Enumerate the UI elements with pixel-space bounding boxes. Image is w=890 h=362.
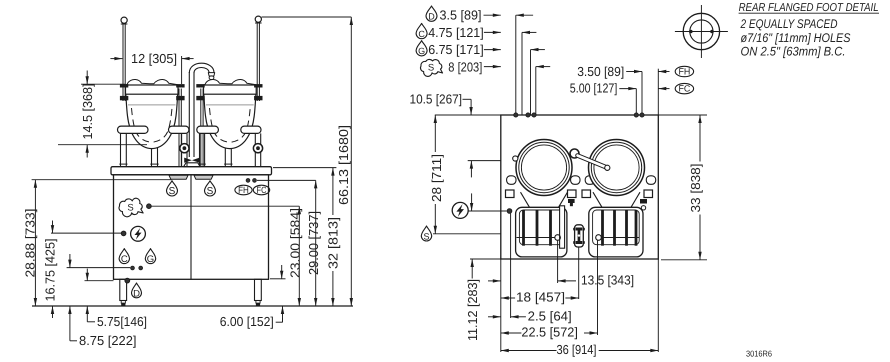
svg-text:28 [711]: 28 [711] bbox=[429, 154, 444, 202]
svg-text:33 [838]: 33 [838] bbox=[688, 164, 703, 213]
dim 13.5 [343] bbox=[488, 273, 634, 288]
plan left drain line and port bbox=[517, 237, 555, 239]
plan right connection lines 3.50 5.00 bbox=[641, 72, 643, 116]
rear foot detail crosshair bbox=[675, 31, 728, 33]
plan right funnel bbox=[593, 192, 602, 207]
svg-text:S: S bbox=[207, 186, 214, 197]
dim row C 4.75 [121] bbox=[416, 23, 536, 40]
right kettle pivot post bbox=[254, 133, 256, 166]
right tilt rod bbox=[256, 23, 258, 101]
right kettle inner support column bbox=[200, 89, 202, 167]
faucet gooseneck bbox=[189, 63, 214, 73]
dim 32 [813] vertical bbox=[273, 168, 340, 306]
left kettle inner support column bbox=[178, 89, 180, 167]
kettle inner level line bbox=[206, 104, 254, 106]
kettle inner bowl hidden line bbox=[210, 108, 251, 142]
icon steam droplet S left bbox=[167, 181, 178, 196]
svg-text:FC: FC bbox=[678, 84, 690, 94]
svg-text:5.00 [127]: 5.00 [127] bbox=[570, 80, 618, 95]
svg-text:29.00 [737]: 29.00 [737] bbox=[306, 211, 321, 275]
svg-text:ø7/16" [11mm] HOLES: ø7/16" [11mm] HOLES bbox=[741, 31, 852, 45]
front view: cabinet door divider bbox=[190, 175, 192, 279]
svg-text:S: S bbox=[423, 231, 429, 241]
left kettle bbox=[126, 79, 179, 148]
left tilt rod bbox=[122, 24, 124, 101]
dim 16.75 [425] bbox=[42, 221, 121, 319]
right kettle bbox=[204, 79, 257, 148]
dim 5.00 [127] bbox=[570, 80, 670, 95]
plan service lines D C G S bbox=[515, 15, 517, 115]
svg-text:23.00 [584]: 23.00 [584] bbox=[288, 208, 303, 278]
plan bottom edge extension left bbox=[470, 258, 501, 260]
rim clamp blocks bbox=[120, 84, 128, 87]
right kettle tilt pivot bbox=[253, 144, 262, 153]
left kettle pivot post bbox=[181, 133, 183, 166]
svg-text:4.75 [121]: 4.75 [121] bbox=[428, 25, 484, 40]
plan right drain line and port bbox=[601, 237, 639, 239]
dim 3.50 [89] bbox=[577, 64, 669, 79]
left kettle center leg bbox=[151, 148, 153, 167]
plan electrical dot bbox=[507, 209, 512, 214]
svg-text:16.75 [425]: 16.75 [425] bbox=[42, 239, 57, 302]
dim row S 8 [203] bbox=[420, 59, 550, 76]
svg-text:FC: FC bbox=[257, 185, 267, 195]
svg-text:FH: FH bbox=[238, 185, 249, 195]
plan top edge extension right bbox=[658, 114, 707, 116]
svg-text:D: D bbox=[428, 11, 435, 21]
water connection dots bbox=[131, 266, 135, 270]
kettle lid wavy profile bbox=[126, 79, 179, 85]
plan trunnion bearing blocks bbox=[506, 190, 515, 198]
svg-text:22.5 [572]: 22.5 [572] bbox=[521, 325, 578, 340]
plan right kettle circles bbox=[589, 140, 645, 196]
label FH ellipse plan bbox=[675, 66, 693, 76]
plan bottom extension lines bbox=[500, 259, 502, 352]
front view: cabinet counter top bbox=[111, 167, 272, 175]
svg-text:12 [305]: 12 [305] bbox=[131, 51, 177, 66]
plan left basket bbox=[516, 207, 567, 257]
plan right edge extension up bbox=[657, 69, 659, 115]
dim row G 6.75 [171] bbox=[416, 41, 545, 58]
drain dot bbox=[125, 278, 130, 283]
plan bottom edge extension right bbox=[661, 259, 707, 261]
kettle inner level line bbox=[128, 104, 176, 106]
svg-text:8.75 [222]: 8.75 [222] bbox=[79, 333, 137, 348]
icon gas droplet G bbox=[145, 249, 155, 264]
kettle rim band bbox=[204, 85, 257, 94]
dim 28.88 [733] bbox=[23, 180, 172, 306]
faucet base bbox=[184, 163, 201, 167]
plan left kettle circles bbox=[516, 140, 572, 196]
svg-text:ON 2.5" [63mm] B.C.: ON 2.5" [63mm] B.C. bbox=[741, 44, 846, 58]
label FH ellipse bbox=[235, 185, 252, 195]
rear foot detail circles bbox=[683, 13, 719, 49]
svg-text:REAR FLANGED FOOT DETAIL: REAR FLANGED FOOT DETAIL bbox=[739, 2, 879, 14]
icon drain droplet D bbox=[132, 283, 142, 298]
svg-text:8 [203]: 8 [203] bbox=[448, 59, 482, 74]
svg-text:11.12 [283]: 11.12 [283] bbox=[465, 279, 480, 341]
svg-text:13.5 [343]: 13.5 [343] bbox=[581, 273, 634, 288]
front view: cabinet body bbox=[114, 175, 269, 279]
svg-text:3.50 [89]: 3.50 [89] bbox=[577, 64, 624, 79]
kettle inner bowl hidden line bbox=[132, 108, 173, 142]
faucet riser pipe bbox=[188, 72, 190, 157]
label FC ellipse plan bbox=[675, 83, 693, 93]
plan swing faucet bbox=[570, 149, 579, 158]
icon cold water droplet C bbox=[119, 249, 129, 264]
svg-text:S: S bbox=[127, 202, 133, 213]
icon electrical bolt circle bbox=[131, 226, 146, 241]
front view: drip shield right bbox=[194, 175, 213, 179]
faucet valve bowtie bbox=[184, 158, 199, 163]
svg-text:2 EQUALLY SPACED: 2 EQUALLY SPACED bbox=[740, 17, 838, 31]
right kettle left trunnion bracket bbox=[197, 126, 219, 133]
svg-text:32 [813]: 32 [813] bbox=[325, 217, 340, 269]
svg-text:S: S bbox=[428, 62, 434, 73]
kettle rim band bbox=[126, 85, 179, 94]
svg-text:18 [457]: 18 [457] bbox=[516, 290, 565, 305]
dim 36 [914] bbox=[501, 342, 659, 357]
left kettle left trunnion bracket bbox=[118, 126, 149, 133]
svg-text:5.75[146]: 5.75[146] bbox=[97, 314, 147, 329]
dim 33 [838] vertical bbox=[688, 115, 703, 260]
plan left basket end panel bbox=[560, 206, 565, 248]
icon electrical bolt circle plan bbox=[452, 202, 468, 218]
plan pointer widget left bbox=[568, 199, 575, 203]
plan pointer widget right bbox=[640, 199, 647, 204]
dim 28 [711] vertical bbox=[429, 115, 444, 234]
left kettle right trunnion bracket bbox=[169, 126, 189, 133]
plan service connection dots bbox=[514, 113, 518, 117]
svg-text:66.13 [1680]: 66.13 [1680] bbox=[336, 125, 351, 205]
front view: drip shield left bbox=[169, 175, 188, 179]
svg-text:14.5 [368]: 14.5 [368] bbox=[80, 84, 95, 140]
electrical dot bbox=[121, 231, 126, 236]
dim 29.00 [737] vertical bbox=[257, 180, 321, 306]
svg-text:2.5 [64]: 2.5 [64] bbox=[528, 308, 572, 323]
icon steam cloud S on door bbox=[119, 198, 143, 217]
front view: left leg bbox=[120, 279, 127, 300]
svg-text:28.88 [733]: 28.88 [733] bbox=[23, 209, 38, 278]
dim 8.75 [222] bbox=[67, 254, 137, 348]
svg-text:C: C bbox=[418, 29, 425, 39]
dim row D 3.5 [89] bbox=[426, 6, 533, 23]
plan right basket bbox=[589, 207, 643, 257]
plan center drain capsule bbox=[575, 225, 584, 247]
dim 10.5 [267] bbox=[410, 92, 501, 178]
kettle body and bowl bbox=[204, 94, 256, 148]
steam supply dot bbox=[147, 204, 152, 209]
dim 22.5 [572] bbox=[501, 325, 598, 340]
plan top edge extension left bbox=[435, 114, 501, 116]
plan electrical leader bbox=[468, 210, 506, 212]
rear foot detail bolt holes bbox=[689, 30, 693, 34]
dim 5.75 [146] bbox=[85, 269, 148, 330]
dim 66.13 [1680] vertical bbox=[262, 17, 354, 306]
svg-text:36 [914]: 36 [914] bbox=[557, 342, 597, 357]
svg-text:10.5 [267]: 10.5 [267] bbox=[410, 92, 463, 107]
plan trunnion ears bbox=[507, 176, 516, 185]
svg-text:G: G bbox=[147, 254, 154, 265]
plan kettle knob bbox=[513, 156, 518, 161]
right kettle left support leg bbox=[199, 133, 201, 166]
svg-text:3.5 [89]: 3.5 [89] bbox=[440, 8, 482, 23]
svg-text:C: C bbox=[121, 254, 128, 265]
svg-text:FH: FH bbox=[678, 67, 690, 77]
steam leader line to 23.00 dim bbox=[151, 205, 299, 207]
svg-text:3016R6: 3016R6 bbox=[746, 349, 772, 359]
kettle body and bowl bbox=[126, 94, 178, 148]
kettle lid wavy profile bbox=[204, 79, 257, 85]
svg-text:6.00 [152]: 6.00 [152] bbox=[220, 314, 274, 329]
svg-text:6.75 [171]: 6.75 [171] bbox=[428, 42, 484, 57]
dim 12 [305] bbox=[110, 51, 193, 84]
dim 18 [457] bbox=[501, 290, 579, 305]
svg-text:G: G bbox=[418, 46, 425, 56]
dim 23.00 [584] vertical bbox=[288, 206, 303, 306]
right tilt rod ball bbox=[255, 16, 261, 22]
svg-text:S: S bbox=[169, 186, 176, 197]
plan steam leader bbox=[433, 233, 501, 235]
right kettle center leg bbox=[224, 148, 226, 167]
dim 2.5 [64] bbox=[488, 308, 572, 323]
icon steam droplet S right bbox=[205, 181, 216, 196]
right kettle right trunnion bracket bbox=[241, 126, 261, 133]
plan view outline bbox=[501, 115, 659, 259]
dim 6.00 [152] bbox=[220, 265, 286, 329]
left kettle left support leg bbox=[120, 133, 122, 166]
front view: floor line bbox=[32, 305, 353, 307]
front view: right leg bbox=[255, 279, 262, 300]
icon steam droplet plan bbox=[421, 226, 431, 241]
left tilt rod ball bbox=[121, 17, 127, 23]
dim 14.5 [368] bbox=[58, 71, 147, 158]
plan left funnel bbox=[521, 192, 530, 207]
svg-text:D: D bbox=[133, 288, 140, 299]
dim 11.12 [283] vertical bbox=[465, 193, 480, 341]
faucet connection dots FH FC bbox=[246, 179, 250, 183]
left kettle tilt pivot bbox=[180, 144, 189, 153]
label FC ellipse bbox=[253, 185, 269, 195]
